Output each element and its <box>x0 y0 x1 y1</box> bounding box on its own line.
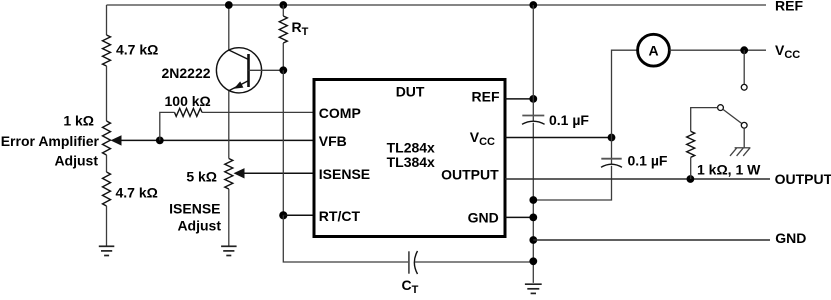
wire ISENSE wiper with arrow <box>243 172 315 174</box>
ground 5k pot <box>221 245 237 247</box>
svg-text:ISENSE: ISENSE <box>169 201 220 217</box>
wire REF pin stub <box>505 98 533 100</box>
svg-text:Adjust: Adjust <box>177 217 221 233</box>
node VFB/100k junction <box>156 137 164 145</box>
node cap return junction <box>529 196 537 204</box>
svg-text:GND: GND <box>468 210 499 226</box>
wire pot wiper / VFB net with arrow <box>120 139 315 141</box>
wire left rail top lead <box>106 5 108 35</box>
potentiometer 1k Error Amplifier Adjust <box>103 121 111 155</box>
capacitor CT <box>408 251 410 273</box>
wire top REF rail <box>107 4 767 6</box>
resistor R 4.7k upper <box>103 35 111 66</box>
svg-text:1 kΩ: 1 kΩ <box>63 113 94 129</box>
wire left rail mid1 <box>106 66 108 121</box>
node GND pin junction <box>529 214 537 222</box>
capacitor 0.1uF VCC bypass <box>611 138 613 164</box>
wire GND terminal line <box>533 239 770 241</box>
svg-text:OUTPUT: OUTPUT <box>775 171 831 187</box>
DUT box U1 <box>314 80 505 237</box>
potentiometer 5k ISENSE Adjust <box>225 159 233 190</box>
wire VCC cap return <box>533 166 611 200</box>
svg-text:COMP: COMP <box>319 105 361 121</box>
wire ammeter to VCC terminal <box>670 49 767 51</box>
wire GND pin stub <box>505 216 533 218</box>
node RT/CT junction <box>279 211 287 219</box>
wire RT/CT pin stub <box>283 214 314 216</box>
node VCC/ammeter junction <box>608 134 616 142</box>
wire RT to base junction <box>282 43 284 70</box>
svg-text:OUTPUT: OUTPUT <box>441 167 499 183</box>
svg-text:GND: GND <box>775 230 806 246</box>
svg-text:TL284x: TL284x <box>387 140 435 156</box>
svg-text:RT/CT: RT/CT <box>319 208 361 224</box>
wire collector to REF rail <box>228 5 230 50</box>
svg-text:ISENSE: ISENSE <box>319 166 370 182</box>
svg-text:REF: REF <box>472 89 500 105</box>
resistor 100k <box>160 112 175 140</box>
wire RT node down to RT/CT <box>282 70 284 215</box>
node top rail right junction <box>529 1 537 9</box>
capacitor 0.1uF REF bypass <box>522 115 544 117</box>
wire REF rail drop <box>532 5 534 121</box>
wire left rail bottom <box>106 206 108 246</box>
node collector rail junction <box>225 1 233 9</box>
svg-text:DUT: DUT <box>396 83 425 99</box>
node VCC terminal junction <box>740 46 748 54</box>
node OUTPUT/load junction <box>687 175 695 183</box>
wire 5k pot to ground <box>228 189 230 246</box>
chassis ground switch <box>743 128 745 148</box>
wire OUTPUT line <box>505 178 770 180</box>
node GND terminal junction <box>529 236 537 244</box>
wire RT/CT node down to CT <box>283 215 408 262</box>
svg-text:0.1 µF: 0.1 µF <box>628 153 668 169</box>
resistor RT <box>282 5 284 16</box>
ground right rail <box>525 283 542 285</box>
svg-text:REF: REF <box>775 0 803 14</box>
wire CT to right gnd rail <box>415 261 534 263</box>
svg-text:4.7 kΩ: 4.7 kΩ <box>116 185 158 201</box>
wire left rail mid2 <box>106 155 108 172</box>
svg-text:4.7 kΩ: 4.7 kΩ <box>116 42 158 58</box>
svg-text:A: A <box>648 43 658 59</box>
wire emitter down to 5k pot <box>228 91 230 159</box>
ground left rail <box>99 245 115 247</box>
transistor Q1 2N2222 <box>216 48 261 93</box>
svg-text:2N2222: 2N2222 <box>162 65 211 81</box>
svg-text:Error Amplifier: Error Amplifier <box>1 133 100 149</box>
wire transistor base to RT node <box>249 69 284 71</box>
resistor 4.7k lower <box>103 172 111 206</box>
wire right gnd rail <box>532 123 534 283</box>
switch S1 <box>743 50 745 84</box>
node base/RT junction <box>279 66 287 74</box>
svg-text:Adjust: Adjust <box>54 152 98 168</box>
node RT top rail junction <box>279 1 287 9</box>
svg-text:VFB: VFB <box>319 133 347 149</box>
node REF/cap junction <box>529 95 537 103</box>
svg-text:5 kΩ: 5 kΩ <box>186 169 217 185</box>
wire VCC pin stub <box>505 137 612 139</box>
svg-text:100 kΩ: 100 kΩ <box>165 93 211 109</box>
node CT junction <box>529 257 537 265</box>
resistor 1k 1W load <box>691 108 718 132</box>
wire 100k to COMP <box>202 111 314 113</box>
svg-text:TL384x: TL384x <box>387 154 435 170</box>
svg-text:1 kΩ, 1 W: 1 kΩ, 1 W <box>697 161 761 177</box>
svg-text:0.1 µF: 0.1 µF <box>549 112 589 128</box>
ammeter A <box>612 50 638 137</box>
